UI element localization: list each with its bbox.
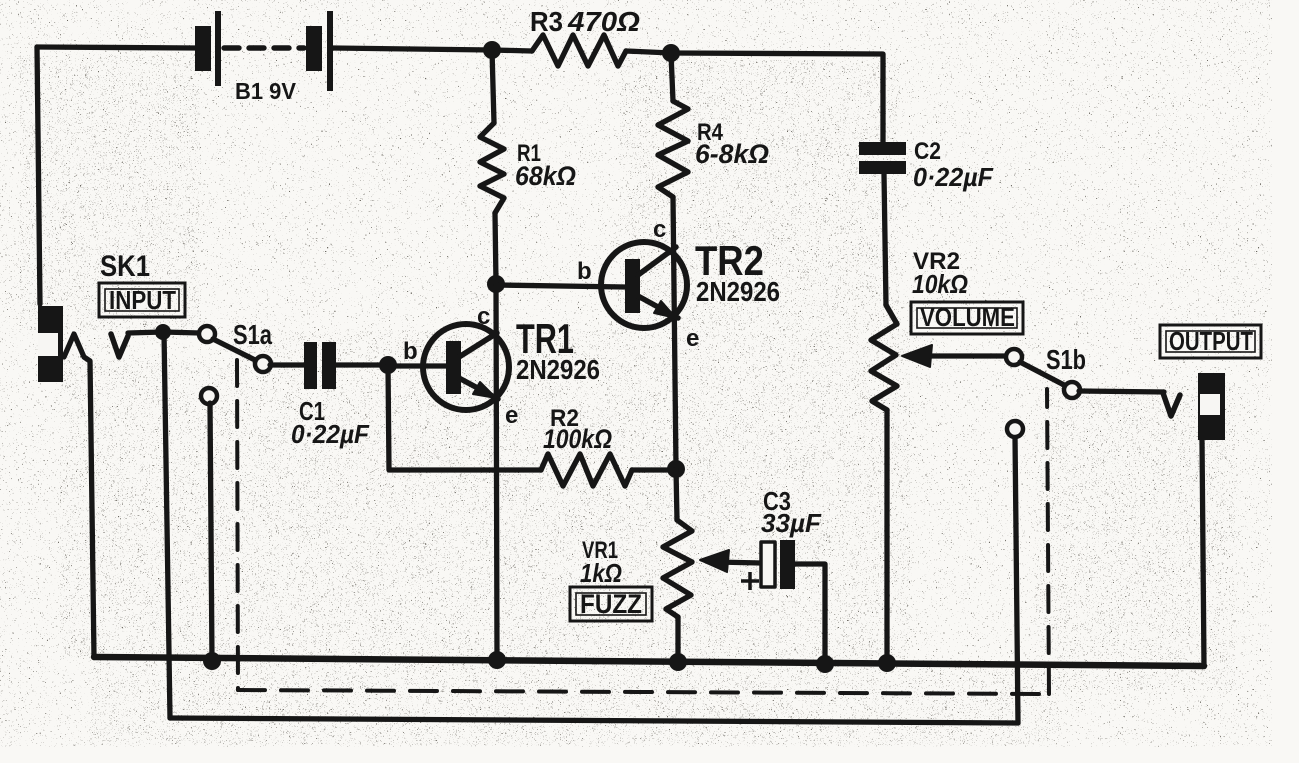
wire R2 to node D xyxy=(632,467,676,472)
wire R1 to node C xyxy=(495,213,496,284)
wire node C to TR2 base xyxy=(496,285,625,287)
svg-text:b: b xyxy=(403,338,418,365)
svg-text:0·22µF: 0·22µF xyxy=(913,162,994,192)
ground dot VR2 xyxy=(878,654,896,672)
svg-text:2N2926: 2N2926 xyxy=(516,354,600,385)
svg-text:S1b: S1b xyxy=(1046,344,1086,375)
svg-text:e: e xyxy=(505,402,518,429)
svg-text:c: c xyxy=(477,303,490,330)
ground dot S1a xyxy=(203,652,221,670)
switch linkage dashed bottom xyxy=(238,690,1049,694)
svg-text:10kΩ: 10kΩ xyxy=(912,269,968,299)
label INPUT box xyxy=(99,283,185,317)
resistor R4 xyxy=(658,101,688,197)
label OUTPUT box xyxy=(1160,325,1261,358)
potentiometer VR2 wiper arrow xyxy=(902,345,932,367)
svg-text:c: c xyxy=(653,216,666,243)
output tip V mark xyxy=(1163,393,1180,416)
wire bypass bottom line xyxy=(170,436,1018,723)
wire VR2 wiper to S1b xyxy=(925,353,1007,358)
wire C2 to VR2 xyxy=(884,174,886,305)
wire C3 to ground rail xyxy=(795,564,825,664)
output jack xyxy=(1198,373,1225,440)
wire battery dashed link xyxy=(224,45,304,50)
switch S1a pole contact xyxy=(199,326,215,342)
wire VR1 wiper to C3 xyxy=(716,562,761,563)
wire TR1 collector-emitter vertical xyxy=(496,284,497,660)
switch S1a lower contact xyxy=(201,388,217,404)
node F junction dot xyxy=(379,356,397,374)
wire C1 to node F xyxy=(336,362,388,367)
potentiometer VR1 xyxy=(663,520,692,617)
wire node F feedback loop xyxy=(388,365,541,470)
resistor R2 xyxy=(541,454,632,486)
svg-text:OUTPUT: OUTPUT xyxy=(1169,326,1253,356)
svg-text:B1 9V: B1 9V xyxy=(235,78,297,104)
wire battery to node A xyxy=(333,48,492,50)
wire R4 to TR2 and node D xyxy=(673,197,676,468)
wire left rail xyxy=(37,47,40,304)
label VOLUME box xyxy=(911,302,1023,334)
transistor TR1 emitter arrow xyxy=(473,382,496,398)
transistor TR1 emitter lead xyxy=(459,378,498,399)
ground dot C3 xyxy=(816,655,834,673)
node B junction dot xyxy=(662,44,680,62)
resistor R1 xyxy=(480,123,504,213)
capacitor C1 xyxy=(304,342,336,389)
node C junction dot xyxy=(487,275,505,293)
capacitor C2 xyxy=(859,142,906,174)
node D junction dot xyxy=(667,460,685,478)
switch S1b throw contact xyxy=(1064,382,1080,398)
transistor TR2 collector lead xyxy=(638,247,676,275)
switch S1b pole contact xyxy=(1006,349,1022,365)
wire node E bypass down xyxy=(164,332,170,718)
transistor TR1 collector lead xyxy=(459,333,497,357)
svg-text:6-8kΩ: 6-8kΩ xyxy=(695,139,769,169)
wire S1a to C1 xyxy=(270,362,304,367)
node A junction dot xyxy=(483,41,501,59)
wire node F to TR1 base xyxy=(388,363,446,368)
switch S1a lever xyxy=(213,339,257,361)
input jack tip hook xyxy=(64,334,94,657)
capacitor C3 positive plate xyxy=(761,542,775,587)
svg-text:VOLUME: VOLUME xyxy=(920,302,1015,332)
wire S1b to output xyxy=(1079,391,1164,392)
svg-text:100kΩ: 100kΩ xyxy=(543,424,612,454)
ground dot VR1 xyxy=(669,653,687,671)
switch S1a throw contact xyxy=(255,356,271,372)
potentiometer VR2 xyxy=(871,305,897,410)
wire VR2 to ground rail xyxy=(884,410,889,663)
wire output jack to ground rail xyxy=(1202,440,1204,666)
transistor TR2 base bar xyxy=(625,259,640,313)
ground rail xyxy=(94,657,1204,666)
wire R3 to node B xyxy=(626,51,671,53)
svg-text:INPUT: INPUT xyxy=(109,285,176,315)
svg-text:S1a: S1a xyxy=(233,319,272,350)
wire S1a lower contact to ground xyxy=(210,403,212,661)
node E junction dot xyxy=(155,324,171,340)
wire ground rail left riser xyxy=(91,654,96,659)
svg-text:FUZZ: FUZZ xyxy=(580,589,642,619)
switch S1b lever xyxy=(1020,362,1066,386)
wire node D to VR1 xyxy=(676,469,677,520)
potentiometer VR1 wiper arrow xyxy=(700,550,729,572)
wire node E to S1a xyxy=(163,332,200,333)
svg-text:470Ω: 470Ω xyxy=(567,6,640,37)
switch linkage dashed S1b side xyxy=(1047,389,1049,694)
svg-text:b: b xyxy=(577,258,592,285)
svg-text:SK1: SK1 xyxy=(100,250,150,283)
capacitor C3 negative plate xyxy=(780,540,795,589)
svg-text:2N2926: 2N2926 xyxy=(696,276,780,307)
svg-text:33µF: 33µF xyxy=(761,508,822,538)
label FUZZ box xyxy=(570,587,652,621)
ground dot TR1 xyxy=(488,651,506,669)
switch S1b lower contact xyxy=(1007,421,1023,437)
transistor TR2 emitter lead xyxy=(638,296,678,318)
input tip V mark xyxy=(111,334,128,357)
battery B1 9V xyxy=(195,11,333,91)
svg-text:68kΩ: 68kΩ xyxy=(515,161,576,191)
switch linkage dashed S1a side xyxy=(237,360,238,690)
wire input V to node E xyxy=(128,332,163,333)
input jack SK1 xyxy=(38,306,63,382)
svg-text:e: e xyxy=(686,325,699,352)
svg-text:R3: R3 xyxy=(530,6,563,37)
svg-text:1kΩ: 1kΩ xyxy=(580,558,622,588)
svg-text:0·22µF: 0·22µF xyxy=(291,419,370,449)
resistor R3 xyxy=(532,35,626,66)
transistor TR1 base bar xyxy=(446,341,461,394)
wire node B to C2 corner xyxy=(671,53,883,142)
transistor TR2 circle xyxy=(601,242,687,328)
wire top rail left xyxy=(37,47,196,48)
wire node A to R3 xyxy=(492,50,532,51)
label C3 plus xyxy=(741,572,759,590)
svg-text:C2: C2 xyxy=(914,138,941,165)
wire R1 top xyxy=(492,50,494,123)
transistor TR1 circle xyxy=(423,324,509,410)
wire VR1 to ground rail xyxy=(675,617,680,662)
transistor TR2 emitter arrow xyxy=(654,301,676,318)
wire R4 top xyxy=(671,53,673,101)
